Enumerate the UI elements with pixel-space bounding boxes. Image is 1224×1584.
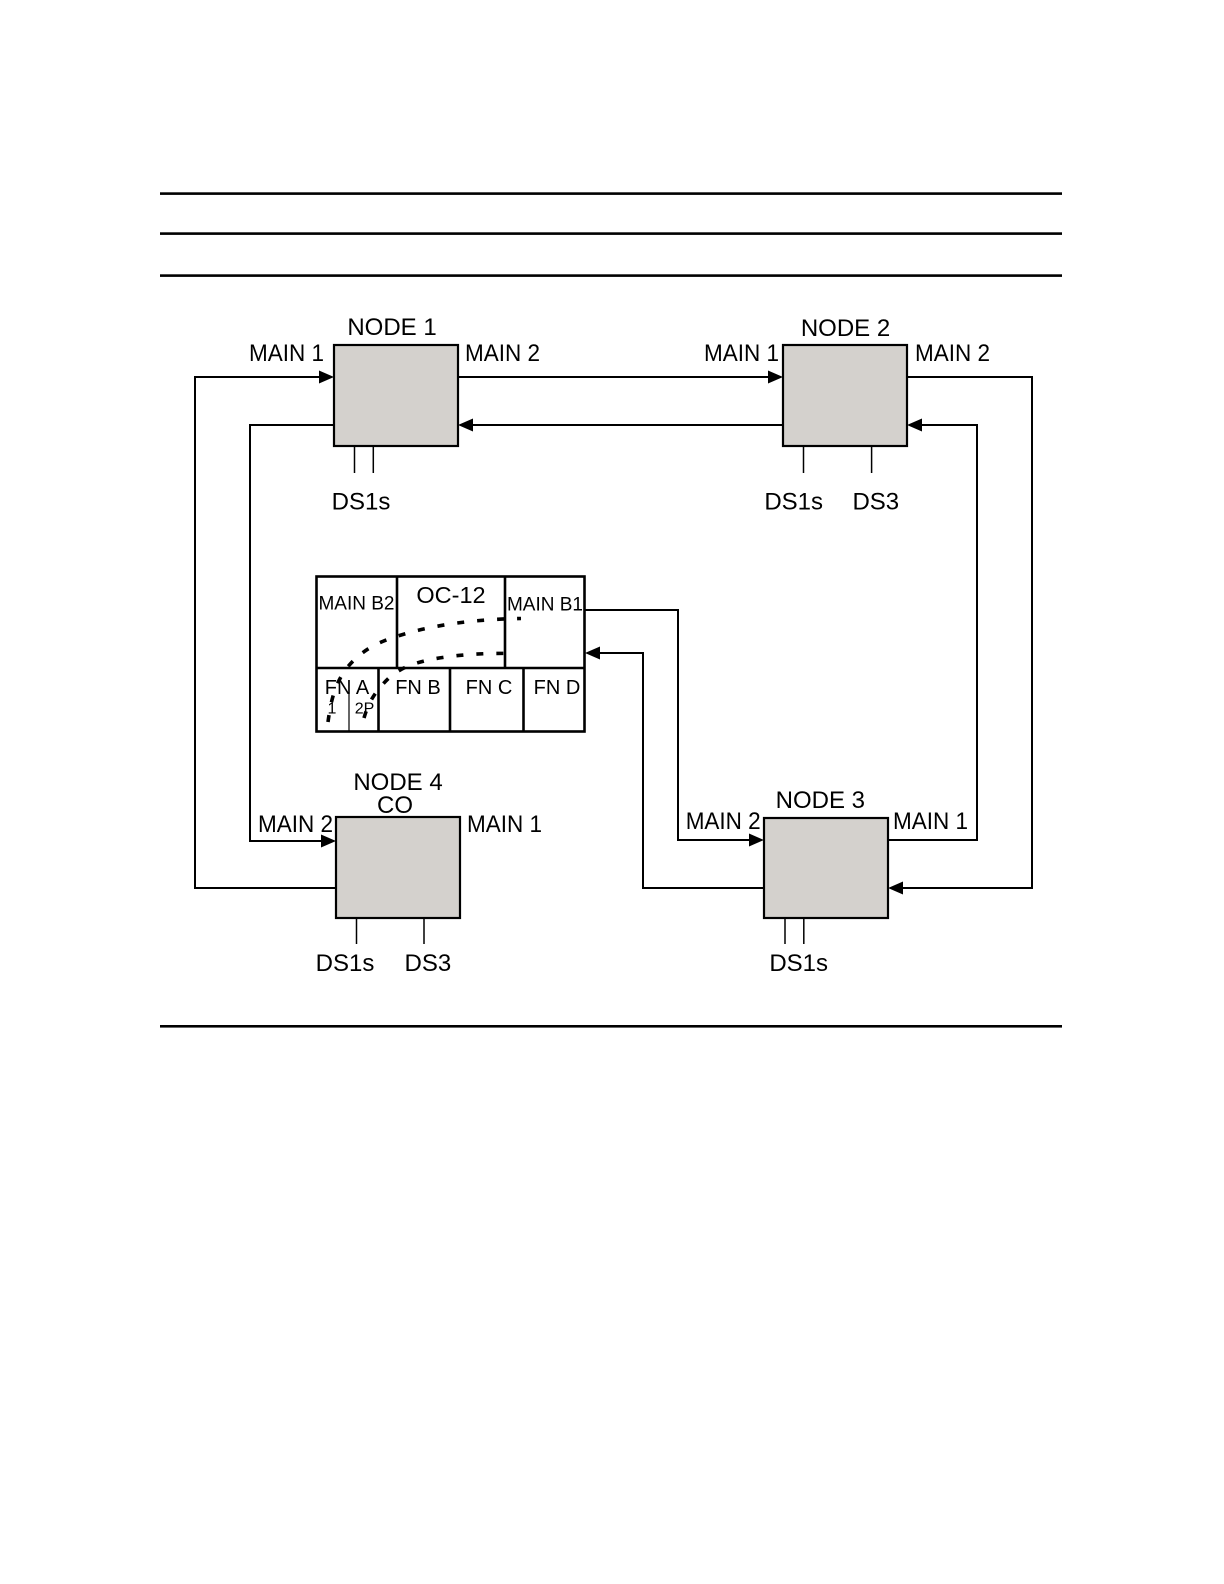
svg-text:NODE 1: NODE 1 bbox=[347, 314, 436, 341]
svg-text:DS3: DS3 bbox=[405, 950, 452, 977]
svg-text:MAIN 1: MAIN 1 bbox=[467, 811, 542, 838]
svg-text:DS3: DS3 bbox=[852, 489, 899, 516]
svg-text:FN B: FN B bbox=[395, 677, 441, 699]
svg-text:MAIN 2: MAIN 2 bbox=[686, 808, 761, 835]
svg-text:DS1s: DS1s bbox=[316, 950, 375, 977]
svg-text:MAIN 1: MAIN 1 bbox=[893, 808, 968, 835]
svg-text:MAIN 2: MAIN 2 bbox=[258, 811, 333, 838]
svg-text:DS1s: DS1s bbox=[332, 489, 391, 516]
svg-text:OC-12: OC-12 bbox=[416, 582, 485, 608]
svg-text:MAIN B1: MAIN B1 bbox=[507, 595, 583, 616]
svg-text:MAIN 2: MAIN 2 bbox=[915, 340, 990, 367]
svg-text:MAIN 1: MAIN 1 bbox=[249, 340, 324, 367]
svg-text:MAIN 2: MAIN 2 bbox=[465, 340, 540, 367]
svg-text:MAIN B2: MAIN B2 bbox=[318, 594, 394, 615]
svg-text:1: 1 bbox=[328, 701, 337, 718]
svg-text:MAIN 1: MAIN 1 bbox=[704, 340, 779, 367]
svg-text:NODE 2: NODE 2 bbox=[801, 315, 890, 342]
svg-text:FN A: FN A bbox=[325, 677, 370, 699]
svg-text:FN D: FN D bbox=[534, 677, 581, 699]
svg-text:CO: CO bbox=[377, 792, 413, 819]
svg-text:DS1s: DS1s bbox=[769, 950, 828, 977]
svg-text:NODE 3: NODE 3 bbox=[776, 787, 865, 814]
svg-text:FN C: FN C bbox=[466, 677, 513, 699]
svg-text:2P: 2P bbox=[355, 701, 375, 718]
svg-text:DS1s: DS1s bbox=[764, 489, 823, 516]
